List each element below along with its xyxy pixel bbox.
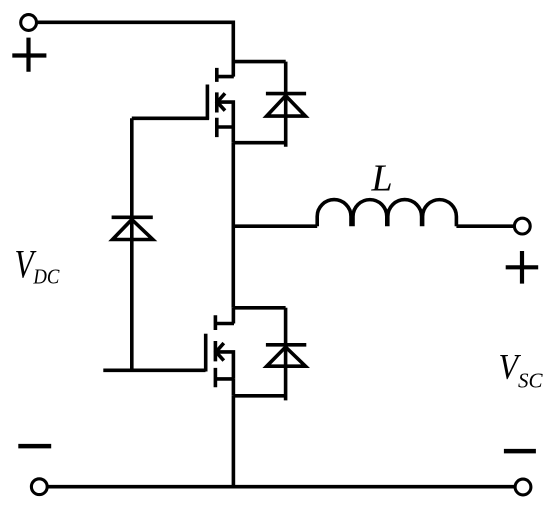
wire: phase node to inductor	[233, 224, 317, 228]
wire: bottom rail	[48, 485, 514, 489]
terminal T1 (V_DC positive)	[21, 15, 37, 31]
wire: Q2 drain node to D2 cathode	[233, 306, 285, 310]
wire: Q1 drain node to D1 cathode	[233, 60, 285, 64]
plus sign (V_DC polarity)	[12, 38, 46, 72]
diode D2 (lower anti-parallel)	[266, 308, 306, 401]
label V_DC	[15, 242, 61, 289]
minus sign (V_SC polarity)	[504, 449, 536, 454]
diode D3 (left branch)	[112, 217, 153, 239]
terminal T2 (V_SC positive)	[514, 218, 530, 234]
label V_SC	[499, 346, 544, 392]
terminal T4 (V_SC negative)	[515, 479, 531, 495]
wire: inductor to terminal T2	[456, 224, 513, 228]
minus sign (V_DC polarity)	[18, 444, 51, 449]
wire: top rail from T1 to Q1 drain node	[38, 22, 234, 61]
wire: Q2 source to D2 anode	[233, 394, 285, 398]
wire: Q2 source down to bottom rail	[232, 396, 236, 487]
terminal T3 (V_DC negative)	[31, 479, 47, 495]
wire: gate of Q2	[103, 368, 205, 372]
inductor L	[317, 200, 456, 227]
diode D1 (upper anti-parallel)	[266, 62, 306, 147]
svg-text:L: L	[371, 158, 393, 200]
svg-text:SC: SC	[518, 369, 544, 393]
wire: gate of Q1	[132, 117, 209, 121]
transistor Q2 (lower MOSFET)	[206, 308, 234, 396]
wire: left branch vertical	[130, 118, 134, 370]
plus sign (V_SC polarity)	[506, 251, 539, 284]
wire: Q1 source to D1 anode	[233, 141, 285, 145]
wire: phase node vertical (Q1 source to Q2 drain)	[232, 143, 236, 308]
svg-text:DC: DC	[33, 265, 61, 289]
transistor Q1 (upper MOSFET)	[207, 60, 233, 143]
